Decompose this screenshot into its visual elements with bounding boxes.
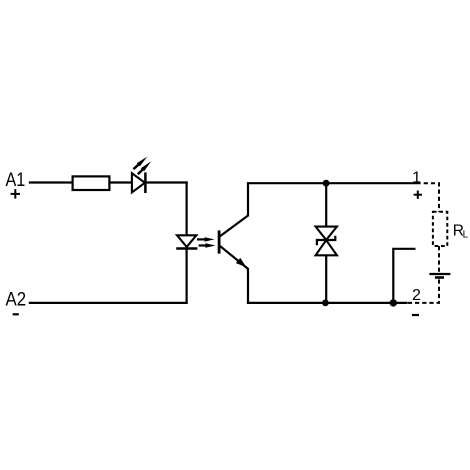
battery positive plate (long) bbox=[429, 273, 450, 275]
phototransistor collector wire up bbox=[247, 183, 249, 216]
TVS suppressor diode bottom triangle bbox=[316, 240, 337, 255]
phototransistor collector diagonal bbox=[220, 215, 249, 236]
LED cathode bar bbox=[144, 172, 147, 193]
internal stub wire L-shape bbox=[393, 249, 415, 303]
phototransistor base bar bbox=[218, 230, 221, 253]
wire A1 to resistor bbox=[29, 181, 73, 183]
opto coupling arrow 1 bbox=[197, 237, 215, 241]
opto coupling arrow 2 bbox=[199, 243, 216, 247]
polarity mark + at A1 bbox=[11, 189, 20, 198]
output bottom rail bbox=[247, 302, 408, 304]
wire opto LED cathode down to input bottom rail bbox=[186, 249, 188, 305]
LED indicator diode triangle bbox=[132, 173, 145, 192]
optocoupler emitter LED triangle bbox=[177, 235, 196, 247]
wire corner down to opto LED bbox=[186, 181, 188, 235]
label RL bbox=[453, 223, 469, 241]
external dashed wire battery to terminal 2 bbox=[407, 280, 439, 303]
wire TVS down to bottom rail bbox=[325, 255, 327, 303]
phototransistor emitter arrow head bbox=[236, 258, 246, 267]
load resistor RL dashed box bbox=[433, 212, 447, 246]
output top rail bbox=[247, 182, 417, 184]
svg-text:A2: A2 bbox=[6, 290, 27, 311]
polarity mark + at terminal 1 bbox=[414, 191, 422, 199]
external dashed wire RL to battery bbox=[438, 246, 440, 272]
TVS zener bar with hooks bbox=[317, 236, 335, 246]
resistor (input series resistor) bbox=[73, 176, 110, 190]
phototransistor emitter wire down bbox=[247, 268, 249, 304]
LED emission arrow 2 bbox=[138, 161, 151, 174]
TVS suppressor diode top triangle bbox=[316, 227, 337, 240]
external dashed wire from terminal 1 bbox=[417, 183, 440, 212]
svg-text:L: L bbox=[463, 230, 469, 241]
junction node top (TVS tap) bbox=[323, 180, 330, 187]
wire resistor to LED bbox=[110, 181, 133, 183]
polarity mark - at A2 bbox=[13, 313, 19, 315]
junction node bottom (TVS tap) bbox=[322, 300, 329, 307]
LED emission arrow 1 bbox=[133, 157, 147, 170]
battery negative plate (short) bbox=[435, 276, 444, 279]
wire LED to corner bbox=[145, 181, 187, 183]
junction node bottom (stub tap) bbox=[390, 299, 397, 306]
phototransistor emitter diagonal bbox=[220, 246, 248, 269]
polarity mark - at terminal 2 bbox=[412, 314, 419, 316]
svg-text:A1: A1 bbox=[6, 170, 26, 191]
input bottom rail wire to A2 bbox=[29, 302, 188, 304]
wire top rail down to TVS bbox=[325, 183, 327, 227]
optocoupler LED cathode bar bbox=[176, 247, 197, 250]
svg-text:2: 2 bbox=[412, 287, 421, 304]
